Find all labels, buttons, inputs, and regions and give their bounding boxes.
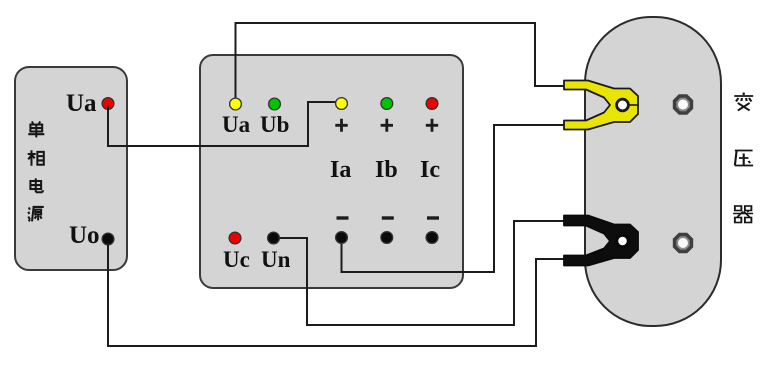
transformer body 变压器 bbox=[585, 17, 721, 326]
label 源 bbox=[28, 207, 44, 221]
wire: tester Ia- to yellow clip lower tail bbox=[342, 125, 565, 272]
tester terminal Uc (red) bbox=[229, 232, 241, 244]
svg-text:Ua: Ua bbox=[222, 112, 251, 137]
wire: source Ua to tester Ia+ bbox=[108, 102, 336, 146]
minus sign Ib bbox=[382, 216, 394, 219]
svg-text:Ic: Ic bbox=[420, 157, 440, 183]
wire: tester Ua to yellow clip upper tail bbox=[236, 23, 565, 100]
single-phase source box 单相电源 bbox=[15, 67, 127, 270]
source terminal Uo (black) bbox=[102, 233, 114, 245]
label 电 bbox=[30, 178, 42, 192]
svg-text:Ub: Ub bbox=[260, 112, 289, 137]
label 单 bbox=[28, 121, 44, 137]
transformer terminal lower (nut) bbox=[673, 233, 693, 253]
tester terminal Ib- (black) bbox=[381, 232, 393, 244]
tester terminal Ib+ (green) bbox=[381, 98, 393, 110]
svg-text:Un: Un bbox=[261, 247, 291, 272]
wire: source Uo to black clip lower tail bbox=[108, 243, 564, 346]
tester terminal Ua (yellow) bbox=[230, 98, 242, 110]
minus sign Ic bbox=[427, 216, 439, 219]
tester box bbox=[200, 55, 463, 288]
plus sign Ic bbox=[426, 119, 438, 132]
transformer terminal upper (nut) bbox=[673, 94, 693, 114]
label 器 bbox=[733, 206, 753, 223]
tester terminal Ia+ (yellow) bbox=[336, 98, 348, 110]
black test clip bbox=[564, 216, 638, 266]
minus sign Ia bbox=[337, 216, 349, 219]
svg-text:Uo: Uo bbox=[69, 222, 100, 249]
svg-text:Uc: Uc bbox=[223, 247, 250, 272]
source terminal Ua (red) bbox=[102, 98, 114, 110]
tester terminal Ic+ (red) bbox=[426, 98, 438, 110]
label 压 bbox=[735, 151, 753, 166]
tester terminal Ic- (black) bbox=[426, 232, 438, 244]
tester terminal Ia- (black) bbox=[336, 232, 348, 244]
wire: tester Un to black clip upper tail bbox=[277, 221, 564, 325]
svg-text:Ia: Ia bbox=[330, 157, 351, 183]
plus sign Ia bbox=[335, 119, 347, 132]
tester terminal Ub (green) bbox=[269, 98, 281, 110]
yellow test clip bbox=[564, 81, 638, 130]
label 变 bbox=[734, 93, 753, 111]
tester terminal Un (black) bbox=[268, 232, 280, 244]
svg-text:Ib: Ib bbox=[375, 157, 398, 183]
svg-text:Ua: Ua bbox=[66, 90, 97, 117]
plus sign Ib bbox=[381, 119, 393, 132]
label 相 bbox=[28, 150, 44, 166]
